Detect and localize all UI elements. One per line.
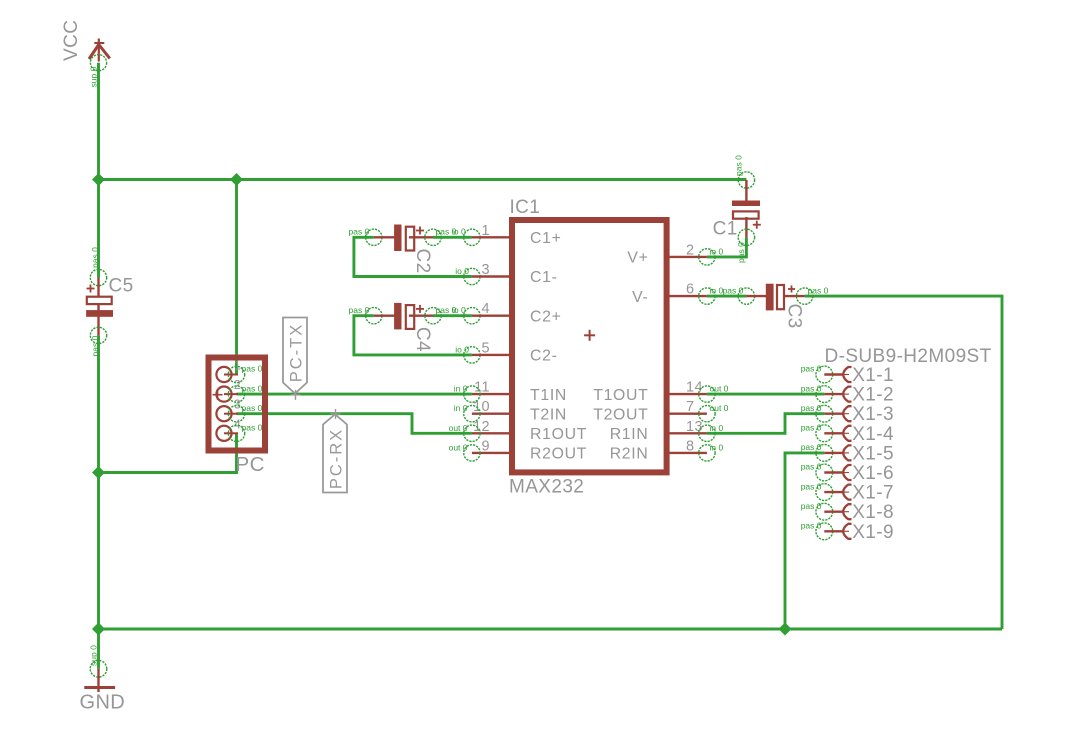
svg-text:X1-6: X1-6 [852,463,894,484]
svg-text:1: 1 [234,359,241,373]
svg-text:io 0: io 0 [710,286,724,296]
svg-text:R2OUT: R2OUT [530,446,587,463]
svg-text:T2OUT: T2OUT [593,406,648,423]
svg-text:R2IN: R2IN [610,446,649,463]
svg-text:pas 0: pas 0 [90,335,100,356]
svg-text:pas 0: pas 0 [801,403,822,413]
svg-text:in 0: in 0 [710,423,724,433]
svg-text:X1-1: X1-1 [852,365,894,386]
svg-text:in 0: in 0 [454,384,468,394]
svg-text:C5: C5 [109,276,134,297]
svg-text:out 0: out 0 [449,442,468,452]
svg-text:14: 14 [686,380,703,396]
svg-text:PC-TX: PC-TX [288,323,306,383]
svg-text:pas 0: pas 0 [808,285,829,295]
svg-text:VCC: VCC [61,20,82,61]
svg-text:GND: GND [80,692,126,714]
svg-text:io 0: io 0 [455,266,469,276]
svg-text:PC: PC [236,453,265,476]
svg-text:pas 0: pas 0 [723,285,744,295]
svg-text:C3: C3 [784,304,805,329]
svg-text:out 0: out 0 [710,384,729,394]
svg-text:pas 0: pas 0 [801,481,822,491]
svg-text:in 0: in 0 [710,442,724,452]
svg-text:in 0: in 0 [454,403,468,413]
svg-text:T2IN: T2IN [530,406,567,423]
svg-text:C1-: C1- [530,269,558,286]
svg-text:C1+: C1+ [530,230,562,247]
svg-text:V-: V- [632,289,648,306]
svg-text:PC-RX: PC-RX [328,428,346,489]
svg-text:4: 4 [234,417,241,431]
svg-text:io 0: io 0 [710,246,724,256]
svg-text:X1-2: X1-2 [852,385,894,406]
svg-text:pas 0: pas 0 [801,501,822,511]
svg-text:X1-9: X1-9 [852,522,894,543]
svg-text:9: 9 [482,438,490,454]
svg-text:C2: C2 [412,249,433,274]
svg-text:pas 0: pas 0 [90,247,100,268]
svg-text:8: 8 [686,438,694,454]
svg-text:sup 0: sup 0 [88,645,98,666]
svg-text:2: 2 [234,378,241,392]
svg-text:X1-4: X1-4 [852,424,894,445]
svg-text:pas 0: pas 0 [242,403,263,413]
svg-text:pas 0: pas 0 [734,155,744,176]
svg-text:C2-: C2- [530,348,558,365]
svg-text:X1-5: X1-5 [852,443,894,464]
svg-text:T1IN: T1IN [530,387,567,404]
svg-text:3: 3 [482,262,490,278]
svg-text:out 0: out 0 [449,423,468,433]
svg-text:2: 2 [686,242,694,258]
svg-text:IC1: IC1 [510,197,541,218]
svg-text:T1OUT: T1OUT [593,387,648,404]
svg-text:C2+: C2+ [530,308,562,325]
svg-text:X1-8: X1-8 [852,502,894,523]
svg-text:C1: C1 [713,219,738,240]
svg-text:7: 7 [686,399,694,415]
svg-text:13: 13 [686,419,703,435]
svg-text:D-SUB9-H2M09ST: D-SUB9-H2M09ST [825,346,992,367]
svg-text:1: 1 [482,223,490,239]
svg-text:V+: V+ [627,250,648,267]
svg-text:10: 10 [473,399,490,415]
svg-text:4: 4 [482,301,490,317]
svg-text:pas 0: pas 0 [801,383,822,393]
svg-text:pas 0: pas 0 [242,383,263,393]
svg-text:pas 0: pas 0 [801,521,822,531]
svg-text:C4: C4 [412,327,433,352]
svg-text:out 0: out 0 [710,403,729,413]
svg-text:R1OUT: R1OUT [530,426,587,443]
svg-text:3: 3 [234,398,241,412]
svg-text:MAX232: MAX232 [509,477,584,498]
svg-text:12: 12 [473,419,490,435]
svg-text:pas 0: pas 0 [242,423,263,433]
svg-text:pas 0: pas 0 [801,423,822,433]
svg-text:5: 5 [482,340,490,356]
svg-text:sup 0: sup 0 [89,66,99,87]
svg-text:pas 0: pas 0 [736,242,746,263]
svg-text:pas 0: pas 0 [801,364,822,374]
svg-text:R1IN: R1IN [610,426,649,443]
svg-text:pas 0: pas 0 [242,364,263,374]
svg-text:X1-7: X1-7 [852,483,894,504]
svg-text:io 0: io 0 [455,344,469,354]
svg-text:X1-3: X1-3 [852,404,894,425]
svg-text:6: 6 [686,282,694,298]
svg-text:pas 0: pas 0 [801,442,822,452]
svg-text:pas 0: pas 0 [801,462,822,472]
